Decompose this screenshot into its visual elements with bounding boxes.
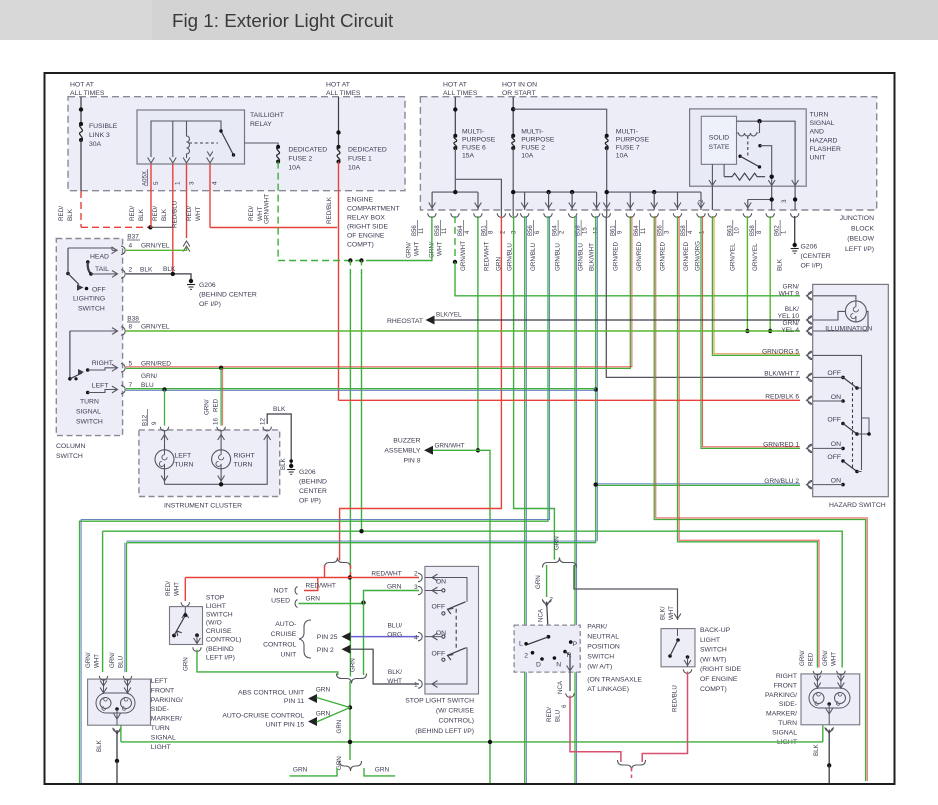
svg-text:HOT AT: HOT AT [443, 82, 467, 89]
svg-text:OFF: OFF [827, 370, 841, 377]
svg-text:HAZARD: HAZARD [810, 137, 838, 144]
svg-text:RED/: RED/ [165, 581, 172, 596]
svg-text:TURN: TURN [778, 720, 797, 727]
svg-text:10A: 10A [348, 165, 361, 172]
svg-text:RED/WHT: RED/WHT [371, 571, 401, 578]
svg-text:CONTROL): CONTROL) [206, 637, 242, 644]
svg-text:(RIGHT SIDE: (RIGHT SIDE [700, 666, 742, 673]
svg-text:FUSIBLE: FUSIBLE [89, 123, 118, 130]
svg-text:GRN/ORG 5: GRN/ORG 5 [762, 349, 799, 356]
svg-text:GRN: GRN [293, 766, 308, 773]
svg-text:GRN/: GRN/ [141, 373, 157, 380]
svg-text:RED/: RED/ [58, 206, 65, 221]
svg-text:BLK: BLK [777, 258, 784, 271]
svg-text:SOLID: SOLID [709, 135, 729, 142]
svg-text:COMPT): COMPT) [347, 242, 374, 249]
svg-text:(CENTER: (CENTER [801, 253, 831, 260]
svg-text:BACK-UP: BACK-UP [700, 627, 731, 634]
svg-text:GRN/: GRN/ [822, 650, 829, 666]
svg-text:SIDE-: SIDE- [779, 701, 797, 708]
svg-text:NEUTRAL: NEUTRAL [587, 634, 619, 641]
svg-text:ON: ON [831, 477, 841, 484]
svg-text:YEL 4: YEL 4 [781, 327, 799, 334]
svg-text:BLK: BLK [96, 739, 103, 752]
svg-text:PIN 11: PIN 11 [284, 698, 304, 705]
svg-text:B38: B38 [127, 316, 139, 323]
svg-text:CENTER: CENTER [299, 488, 327, 495]
svg-text:RED/: RED/ [186, 206, 193, 221]
svg-text:2: 2 [524, 653, 528, 660]
svg-text:Fig 1: Exterior Light Circuit: Fig 1: Exterior Light Circuit [172, 10, 394, 31]
svg-text:AT LINKAGE): AT LINKAGE) [587, 686, 629, 693]
svg-text:LINK 3: LINK 3 [89, 132, 110, 139]
svg-text:STATE: STATE [709, 144, 730, 151]
svg-text:COMPT): COMPT) [700, 686, 727, 693]
svg-text:GRN/BLU: GRN/BLU [507, 243, 514, 271]
svg-text:PIN 2: PIN 2 [317, 647, 334, 654]
svg-text:GRN: GRN [375, 766, 390, 773]
svg-text:GRN: GRN [183, 657, 190, 671]
svg-text:(BEHIND LEFT I/P): (BEHIND LEFT I/P) [415, 728, 474, 735]
svg-text:(W/ A/T): (W/ A/T) [587, 664, 612, 671]
svg-text:HOT AT: HOT AT [326, 82, 350, 89]
svg-text:GRN: GRN [306, 596, 321, 603]
svg-text:TURN: TURN [810, 112, 829, 119]
svg-text:DEDICATED: DEDICATED [288, 147, 327, 154]
svg-text:5: 5 [153, 181, 160, 185]
svg-text:LIGHT: LIGHT [151, 744, 171, 751]
svg-text:ON: ON [831, 441, 841, 448]
svg-text:JUNCTION: JUNCTION [840, 215, 874, 222]
svg-text:2: 2 [129, 266, 133, 273]
svg-text:1: 1 [175, 181, 182, 185]
svg-text:CONTROL): CONTROL) [439, 718, 475, 725]
svg-text:SWITCH: SWITCH [76, 419, 103, 426]
svg-text:UNIT PIN 15: UNIT PIN 15 [266, 722, 305, 729]
svg-text:MULTI-: MULTI- [521, 129, 543, 136]
svg-text:BLK: BLK [273, 406, 286, 413]
svg-text:N: N [556, 661, 561, 668]
svg-text:ENGINE: ENGINE [347, 197, 374, 204]
svg-text:FLASHER: FLASHER [810, 146, 841, 153]
svg-text:SIGNAL: SIGNAL [76, 409, 101, 416]
svg-text:G206: G206 [199, 282, 216, 289]
svg-text:D: D [536, 661, 541, 668]
svg-text:3: 3 [781, 199, 788, 203]
svg-text:AUTO-: AUTO- [275, 621, 296, 628]
svg-text:WHT: WHT [174, 582, 181, 596]
svg-text:WHT: WHT [387, 678, 402, 685]
svg-text:(BEHIND: (BEHIND [206, 646, 234, 653]
svg-text:RED/WHT: RED/WHT [306, 583, 336, 590]
svg-text:ORG: ORG [387, 632, 402, 639]
svg-text:WHT: WHT [195, 207, 202, 221]
svg-text:WHT: WHT [437, 242, 444, 256]
svg-text:GRN: GRN [535, 575, 542, 589]
svg-text:PURPOSE: PURPOSE [616, 137, 650, 144]
svg-text:4: 4 [212, 181, 219, 185]
svg-text:GRN/: GRN/ [85, 652, 92, 668]
svg-text:3: 3 [189, 181, 196, 185]
svg-text:GRN: GRN [387, 584, 402, 591]
svg-text:GRN: GRN [350, 658, 357, 672]
svg-text:ALL TIMES: ALL TIMES [443, 90, 478, 97]
svg-text:BLK/WHT: BLK/WHT [588, 243, 595, 271]
svg-text:15: 15 [583, 227, 589, 234]
svg-text:RED: RED [808, 652, 815, 666]
svg-text:GRN: GRN [336, 720, 343, 734]
svg-text:LIGHT: LIGHT [700, 637, 720, 644]
svg-text:PARKING/: PARKING/ [765, 692, 797, 699]
svg-text:FUSE 2: FUSE 2 [521, 145, 545, 152]
svg-text:AUTO-CRUISE CONTROL: AUTO-CRUISE CONTROL [222, 713, 304, 720]
svg-text:BLU: BLU [141, 382, 154, 389]
svg-text:MULTI-: MULTI- [462, 129, 484, 136]
svg-text:AND: AND [810, 129, 824, 136]
svg-text:BLK/: BLK/ [660, 606, 667, 620]
svg-text:POSITION: POSITION [587, 644, 620, 651]
svg-text:FUSE 7: FUSE 7 [616, 145, 640, 152]
svg-text:11: 11 [641, 227, 647, 234]
svg-text:RED/: RED/ [152, 206, 159, 221]
svg-text:GRN/: GRN/ [783, 320, 800, 327]
svg-text:COMPARTMENT: COMPARTMENT [347, 206, 400, 213]
svg-text:MARKER/: MARKER/ [151, 716, 182, 723]
svg-text:PURPOSE: PURPOSE [462, 137, 496, 144]
svg-text:GRN/YEL: GRN/YEL [141, 324, 170, 331]
svg-text:1: 1 [414, 682, 418, 689]
svg-text:6: 6 [561, 704, 568, 708]
svg-text:RIGHT: RIGHT [776, 673, 797, 680]
svg-text:GRN/BLU: GRN/BLU [530, 243, 537, 271]
svg-text:(BELOW: (BELOW [847, 236, 874, 243]
svg-text:OFF: OFF [827, 454, 841, 461]
svg-text:16: 16 [213, 418, 220, 425]
svg-text:(RIGHT SIDE: (RIGHT SIDE [347, 224, 389, 231]
svg-text:GRN/RED: GRN/RED [660, 242, 667, 271]
svg-text:G206: G206 [801, 244, 818, 251]
svg-text:WHT: WHT [413, 242, 420, 256]
svg-text:BLK/: BLK/ [785, 306, 799, 313]
svg-text:12: 12 [260, 418, 267, 425]
svg-text:BLK/: BLK/ [388, 669, 402, 676]
svg-text:BLK/WHT 7: BLK/WHT 7 [764, 371, 799, 378]
svg-text:BLU: BLU [555, 710, 562, 722]
svg-text:LIGHT: LIGHT [206, 603, 226, 610]
svg-text:B56: B56 [658, 225, 664, 236]
svg-text:BLK: BLK [280, 457, 287, 470]
svg-text:OF I/P): OF I/P) [199, 301, 221, 308]
svg-text:YEL 10: YEL 10 [778, 313, 800, 320]
svg-text:RHEOSTAT: RHEOSTAT [387, 318, 423, 325]
svg-text:GRN/RED: GRN/RED [636, 242, 643, 271]
svg-text:GRN/RED: GRN/RED [612, 242, 619, 271]
svg-text:FUSE 1: FUSE 1 [348, 156, 372, 163]
svg-text:GRN/: GRN/ [109, 652, 116, 668]
svg-text:B58: B58 [681, 225, 687, 236]
svg-text:BLK: BLK [140, 266, 153, 273]
svg-text:COLUMN: COLUMN [56, 443, 86, 450]
svg-text:SIGNAL: SIGNAL [810, 120, 835, 127]
svg-text:HOT AT: HOT AT [70, 82, 94, 89]
svg-text:FUSE 6: FUSE 6 [462, 145, 486, 152]
svg-text:(W/O: (W/O [206, 620, 222, 627]
svg-text:OFF: OFF [432, 604, 446, 611]
svg-text:TURN: TURN [234, 462, 253, 469]
svg-text:SIGNAL: SIGNAL [772, 729, 797, 736]
svg-text:RED/BLU: RED/BLU [172, 200, 179, 228]
svg-text:10A: 10A [288, 165, 301, 172]
svg-text:30A: 30A [89, 141, 102, 148]
svg-text:BLU/: BLU/ [388, 623, 403, 630]
svg-text:GRN/: GRN/ [799, 650, 806, 666]
svg-text:LEFT: LEFT [151, 678, 168, 685]
svg-text:GRN/YEL: GRN/YEL [729, 243, 736, 271]
svg-text:BLU: BLU [118, 656, 125, 668]
svg-text:ON: ON [436, 579, 446, 586]
svg-text:OF ENGINE: OF ENGINE [700, 676, 738, 683]
svg-text:(BEHIND: (BEHIND [299, 479, 327, 486]
svg-text:(ON TRANSAXLE: (ON TRANSAXLE [587, 677, 642, 684]
svg-text:ON: ON [831, 394, 841, 401]
svg-text:PIN 25: PIN 25 [317, 634, 338, 641]
svg-text:RED/WHT: RED/WHT [483, 241, 490, 271]
svg-text:(W/ M/T): (W/ M/T) [700, 656, 726, 663]
svg-text:2: 2 [414, 571, 418, 578]
svg-text:GRN/RED 1: GRN/RED 1 [763, 442, 799, 449]
svg-text:GRN/YEL: GRN/YEL [141, 243, 170, 250]
svg-text:RELAY BOX: RELAY BOX [347, 215, 385, 222]
svg-text:OFF: OFF [92, 287, 106, 294]
svg-text:BLK: BLK [138, 208, 145, 221]
svg-text:BLK: BLK [813, 743, 820, 756]
svg-text:NCA: NCA [538, 608, 545, 622]
svg-text:SIDE-: SIDE- [151, 706, 169, 713]
svg-text:5: 5 [129, 360, 133, 367]
svg-text:GRN/RED: GRN/RED [141, 360, 171, 367]
svg-text:4: 4 [129, 243, 133, 250]
svg-text:INSTRUMENT CLUSTER: INSTRUMENT CLUSTER [164, 503, 242, 510]
svg-text:FRONT: FRONT [151, 687, 174, 694]
svg-text:RED/: RED/ [546, 707, 553, 722]
svg-text:SWITCH: SWITCH [56, 453, 83, 460]
svg-text:UNIT: UNIT [280, 652, 296, 659]
svg-text:GRN: GRN [316, 687, 331, 694]
svg-text:OF I/P): OF I/P) [801, 263, 823, 270]
svg-text:BLOCK: BLOCK [851, 225, 875, 232]
svg-text:TURN: TURN [80, 399, 99, 406]
svg-text:RED/: RED/ [129, 206, 136, 221]
svg-text:RED/BLK: RED/BLK [326, 196, 333, 224]
svg-text:WHT 9: WHT 9 [779, 291, 800, 298]
svg-text:PARK/: PARK/ [587, 624, 607, 631]
svg-text:OR START: OR START [502, 90, 536, 97]
svg-text:B56: B56 [528, 225, 534, 236]
svg-text:GRN/: GRN/ [405, 242, 412, 258]
svg-text:9: 9 [151, 421, 158, 425]
svg-text:BLK: BLK [161, 208, 168, 221]
svg-text:P: P [573, 641, 578, 648]
svg-text:GRN/BLU 2: GRN/BLU 2 [764, 478, 799, 485]
svg-text:STOP LIGHT SWITCH: STOP LIGHT SWITCH [405, 697, 474, 704]
svg-text:10A: 10A [521, 153, 534, 160]
svg-text:7: 7 [550, 597, 554, 604]
svg-text:7: 7 [129, 382, 133, 389]
svg-text:RED/BLK 6: RED/BLK 6 [765, 394, 799, 401]
svg-text:HAZARD SWITCH: HAZARD SWITCH [829, 502, 886, 509]
svg-text:CRUISE: CRUISE [271, 631, 297, 638]
svg-text:NOT: NOT [274, 588, 288, 595]
svg-text:GRN/: GRN/ [204, 399, 211, 415]
svg-text:HEAD: HEAD [90, 254, 109, 261]
svg-text:FRONT: FRONT [774, 682, 797, 689]
svg-text:(BEHIND CENTER: (BEHIND CENTER [199, 292, 257, 299]
svg-text:ASSEMBLY: ASSEMBLY [384, 448, 421, 455]
svg-text:LIGHTING: LIGHTING [73, 296, 105, 303]
svg-text:TURN: TURN [175, 462, 194, 469]
svg-text:SWITCH: SWITCH [78, 306, 105, 313]
svg-text:4: 4 [414, 634, 418, 641]
svg-text:11: 11 [419, 227, 425, 234]
svg-text:TAILLIGHT: TAILLIGHT [250, 112, 284, 119]
svg-text:RED: RED [213, 398, 220, 412]
svg-text:LEFT: LEFT [92, 383, 109, 390]
svg-text:TAIL: TAIL [95, 266, 109, 273]
svg-text:10: 10 [734, 227, 740, 234]
svg-text:PARKING/: PARKING/ [151, 697, 183, 704]
svg-text:RED/BLU: RED/BLU [672, 685, 679, 712]
svg-text:CRUISE: CRUISE [206, 628, 232, 635]
svg-text:PIN 8: PIN 8 [404, 458, 421, 465]
svg-text:RIGHT: RIGHT [234, 453, 255, 460]
svg-text:GRN: GRN [336, 756, 343, 770]
svg-text:OFF: OFF [432, 651, 446, 658]
svg-text:GRN: GRN [554, 536, 561, 550]
svg-text:FUSE 2: FUSE 2 [288, 156, 312, 163]
svg-text:GRN/WHT: GRN/WHT [435, 443, 465, 450]
svg-text:UNIT: UNIT [810, 155, 826, 162]
svg-text:OFF: OFF [827, 416, 841, 423]
svg-text:SWITCH: SWITCH [587, 654, 614, 661]
svg-text:RIGHT: RIGHT [92, 360, 113, 367]
svg-text:ALL TIMES: ALL TIMES [326, 90, 361, 97]
svg-text:OF ENGINE: OF ENGINE [347, 233, 385, 240]
svg-text:HOT IN ON: HOT IN ON [502, 82, 537, 89]
svg-text:10A: 10A [616, 153, 629, 160]
svg-text:USED: USED [271, 597, 290, 604]
svg-text:BLK/YEL: BLK/YEL [436, 312, 462, 319]
svg-text:BUZZER: BUZZER [393, 438, 420, 445]
svg-text:MULTI-: MULTI- [616, 129, 638, 136]
svg-text:GRN/BLU: GRN/BLU [555, 243, 562, 271]
svg-text:PURPOSE: PURPOSE [521, 137, 555, 144]
svg-text:8: 8 [129, 324, 133, 331]
svg-text:LEFT: LEFT [175, 453, 192, 460]
svg-text:WHT: WHT [831, 652, 838, 666]
svg-text:LEFT I/P): LEFT I/P) [845, 246, 874, 253]
svg-text:L: L [519, 641, 523, 648]
svg-text:(W/ CRUISE: (W/ CRUISE [436, 708, 475, 715]
svg-text:MARKER/: MARKER/ [766, 711, 797, 718]
svg-text:GRN/WHT: GRN/WHT [264, 194, 271, 224]
svg-text:11: 11 [442, 227, 448, 234]
svg-text:GRN/: GRN/ [783, 284, 800, 291]
svg-text:RELAY: RELAY [250, 121, 272, 128]
svg-text:NCA: NCA [557, 680, 564, 694]
svg-text:ABS CONTROL UNIT: ABS CONTROL UNIT [238, 689, 304, 696]
svg-text:GRN/RED: GRN/RED [683, 242, 690, 271]
svg-text:B37: B37 [127, 234, 139, 241]
svg-text:ALL TIMES: ALL TIMES [70, 90, 105, 97]
svg-text:G206: G206 [299, 469, 316, 476]
svg-text:WHT: WHT [668, 606, 675, 620]
svg-text:TURN: TURN [151, 725, 170, 732]
svg-text:WHT: WHT [94, 654, 101, 668]
svg-text:BLK: BLK [163, 266, 176, 273]
svg-text:STOP: STOP [206, 595, 225, 602]
svg-text:DEDICATED: DEDICATED [348, 147, 387, 154]
svg-text:GRN/YEL: GRN/YEL [752, 243, 759, 271]
svg-text:GRN/BLU: GRN/BLU [578, 243, 585, 271]
svg-text:RED/: RED/ [248, 206, 255, 221]
svg-text:LEFT I/P): LEFT I/P) [206, 654, 235, 661]
svg-text:15A: 15A [462, 153, 475, 160]
svg-text:B61: B61 [610, 225, 616, 236]
svg-text:CONTROL: CONTROL [263, 641, 296, 648]
svg-text:BLK: BLK [67, 208, 74, 221]
svg-text:SIGNAL: SIGNAL [151, 734, 176, 741]
svg-text:SWITCH: SWITCH [206, 611, 233, 618]
svg-text:SWITCH: SWITCH [700, 647, 727, 654]
svg-text:OF I/P): OF I/P) [299, 498, 321, 505]
svg-text:GRN/WHT: GRN/WHT [460, 241, 467, 271]
